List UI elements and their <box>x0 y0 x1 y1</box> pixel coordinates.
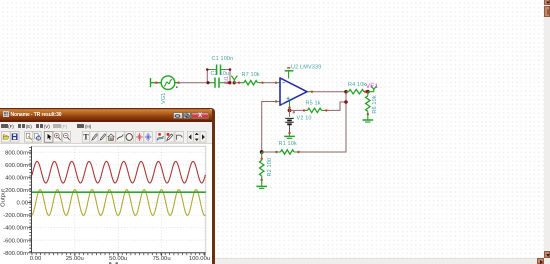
voltage generator VG1 <box>161 76 179 90</box>
wire op-amp output to R4 <box>312 91 346 93</box>
capacitor C1 <box>212 65 226 75</box>
svg-text:600.00m: 600.00m <box>5 163 28 169</box>
node output junctions <box>344 90 348 104</box>
scrollbar vertical track <box>544 0 550 264</box>
node VG1 output lead dot <box>155 82 180 84</box>
svg-text:0.00: 0.00 <box>17 201 29 207</box>
node V2 bottom lead <box>288 132 290 134</box>
svg-text:-800.00m: -800.00m <box>3 251 28 257</box>
power bar VCC op-amp top <box>285 68 294 71</box>
node op-amp output lead <box>311 91 313 93</box>
svg-text:V2 10: V2 10 <box>297 116 312 122</box>
ground VG1 left terminal <box>151 78 162 87</box>
node R2 leads <box>261 158 263 182</box>
svg-text:R1 10k: R1 10k <box>279 141 297 147</box>
svg-text:R5 1k: R5 1k <box>306 101 321 107</box>
resistor R7 <box>239 81 263 85</box>
node VG1 plus marker <box>176 86 178 88</box>
ground below R6 <box>363 114 374 122</box>
svg-text:-200.00m: -200.00m <box>3 213 28 219</box>
svg-text:100.00u: 100.00u <box>189 256 210 262</box>
resistor R1 <box>277 150 299 154</box>
svg-text:400.00m: 400.00m <box>5 175 28 181</box>
node op-amp V- junction <box>288 106 295 113</box>
wire plus input to R1 R2 junction <box>262 102 276 153</box>
pin IN1 voltage pin symbol <box>231 76 237 83</box>
resistor R4 <box>346 90 368 94</box>
node top branch corners <box>206 68 231 71</box>
svg-text:-400.00m: -400.00m <box>3 226 28 232</box>
svg-text:25.00u: 25.00u <box>66 256 84 262</box>
wire top capacitor branch <box>207 70 230 83</box>
ground below R2 <box>256 180 267 188</box>
svg-text:800.00m: 800.00m <box>5 150 28 156</box>
svg-text:VF1: VF1 <box>366 83 379 90</box>
wire R7 to op-amp inverting input <box>263 82 277 84</box>
svg-text:R6 10k: R6 10k <box>372 95 378 113</box>
junction capacitor input node <box>206 81 236 84</box>
wire node to R7 <box>234 82 239 84</box>
op-amp U2 LMV339 <box>276 71 312 107</box>
svg-text:-600.00m: -600.00m <box>3 238 28 244</box>
junction R1 R2 plus-input node <box>260 150 300 154</box>
pin VF1 voltage pin symbol <box>368 86 377 92</box>
node R7 leads <box>238 82 264 84</box>
svg-text:R7 10k: R7 10k <box>242 72 260 78</box>
node R5 leads <box>303 109 328 111</box>
chart TR result plot <box>0 0 218 264</box>
window TR result <box>0 108 215 264</box>
resistor R5 <box>304 108 326 112</box>
node R6 bottom lead <box>367 113 369 115</box>
scrollbar thumb vertical <box>544 6 550 17</box>
svg-text:200.00m: 200.00m <box>5 188 28 194</box>
wire V- junction to R5 <box>290 108 305 117</box>
resistor R2 <box>260 152 264 180</box>
capacitor C2 <box>208 78 228 88</box>
svg-text:U2 LMV339: U2 LMV339 <box>291 65 321 71</box>
wire VG1 to capacitor node <box>179 82 208 84</box>
svg-text:75.00u: 75.00u <box>153 256 171 262</box>
svg-text:R4 10k: R4 10k <box>348 82 366 88</box>
scrollbar horizontal track <box>0 258 544 264</box>
svg-text:50.00u: 50.00u <box>109 256 127 262</box>
wire output node down <box>299 92 347 152</box>
wire R5 step <box>326 102 346 110</box>
svg-text:Output: Output <box>1 189 7 207</box>
resistor R6 <box>366 92 370 115</box>
junction output divider node <box>366 90 370 94</box>
svg-text:IN1: IN1 <box>224 76 230 85</box>
wire junction to R1 <box>262 151 277 153</box>
node op-amp input lead dots <box>275 82 277 103</box>
svg-text:0.00: 0.00 <box>30 256 42 262</box>
battery V2 <box>285 118 294 133</box>
scrollbar down button <box>544 251 550 258</box>
scrollbar right button horizontal <box>537 258 544 264</box>
svg-text:R2 100: R2 100 <box>267 158 273 177</box>
ground below V2 <box>284 133 295 138</box>
scrollbar up button <box>544 0 550 5</box>
node R4 right lead <box>364 91 366 93</box>
